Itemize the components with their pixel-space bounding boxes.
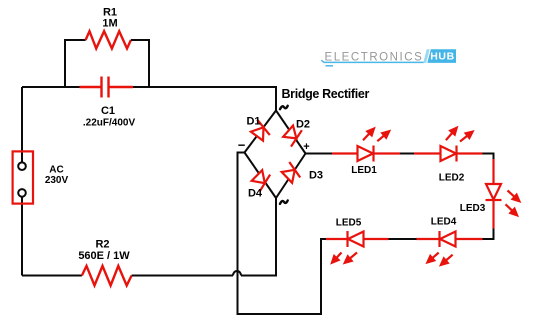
resistor R2 [82, 266, 132, 286]
wire: LED2 to corner [457, 152, 483, 154]
AC source body [13, 151, 33, 203]
wire: red to LED1 [332, 152, 358, 154]
wire: black segment bottom row [389, 238, 417, 240]
LED1 emission arrows [361, 127, 391, 144]
wire: red down to LED3 [492, 159, 494, 184]
diode D1 [251, 120, 270, 141]
logo underline [321, 60, 424, 66]
wire: bottom line R2 to hop [132, 275, 233, 277]
AC tilde bottom [280, 201, 288, 204]
wire: red to LED2 [414, 152, 441, 154]
svg-text:Bridge Rectifier: Bridge Rectifier [282, 87, 370, 101]
wire: R1 loop left vertical [65, 40, 86, 87]
capacitor C1 [80, 77, 134, 98]
wire: LED4 to black segment [417, 238, 440, 240]
svg-text:LED1: LED1 [351, 165, 377, 176]
wire: black segment [400, 153, 414, 155]
AC tilde top [280, 106, 288, 109]
wire: red to LED5 [364, 238, 389, 240]
wire hop over minus rail [233, 271, 241, 276]
LED5 [348, 231, 364, 247]
wire: bottom line hop to bridge bottom [241, 198, 276, 276]
svg-text:D2: D2 [296, 119, 310, 131]
svg-text:LED3: LED3 [460, 203, 486, 214]
wire: top main line left segment [22, 86, 80, 88]
svg-text:C1: C1 [101, 105, 115, 117]
diode D3 [282, 162, 301, 183]
wire: red to LED4 [456, 238, 483, 240]
LED4 [440, 231, 456, 247]
svg-text:D1: D1 [246, 116, 260, 128]
LED5 emission arrows [330, 250, 359, 265]
wire: black corner bottom right [483, 229, 494, 240]
AC source terminals [18, 162, 26, 170]
logo HUB box slash [423, 49, 430, 63]
svg-text:LED4: LED4 [431, 217, 457, 228]
diode D4 [252, 170, 270, 192]
wire: black corner top right [483, 154, 494, 160]
LED4 emission arrows [425, 250, 454, 267]
svg-text:230V: 230V [45, 175, 69, 186]
wire: left rail lower [21, 193, 23, 276]
svg-text:.22uF/400V: .22uF/400V [83, 118, 136, 129]
wire: black corner bottom left of LED row [320, 238, 326, 240]
svg-text:1M: 1M [102, 18, 117, 30]
svg-text:+: + [303, 141, 309, 153]
svg-text:−: − [238, 138, 246, 153]
LED2 [441, 146, 457, 162]
wire: bottom line left of R2 [22, 275, 82, 277]
bridge edge bottom-left [245, 153, 277, 199]
svg-text:R2: R2 [95, 239, 109, 251]
svg-text:560E / 1W: 560E / 1W [78, 250, 130, 262]
wire: LED1 to LED2 [374, 152, 401, 154]
wire: LED3 down red [492, 200, 494, 229]
LED3 [486, 184, 502, 200]
svg-text:LED5: LED5 [336, 218, 362, 229]
LED1 [358, 146, 374, 162]
svg-text:AC: AC [49, 165, 63, 176]
bridge edge top-right [276, 111, 306, 154]
wire: left rail upper [21, 87, 23, 166]
svg-text:D3: D3 [309, 170, 323, 182]
wire: R1 loop right vertical [131, 40, 149, 87]
bridge edge bottom-right [276, 154, 306, 199]
bridge edge top-left [245, 111, 277, 153]
wire: red LED5 to corner [326, 238, 348, 240]
diode D2 [283, 126, 302, 147]
LED3 emission arrows [503, 188, 521, 217]
svg-text:D4: D4 [248, 188, 263, 200]
svg-text:HUB: HUB [430, 51, 455, 63]
LED2 emission arrows [444, 126, 475, 144]
logo HUB box [427, 49, 456, 63]
wire: plus output black [306, 153, 333, 155]
resistor R1 [86, 31, 131, 48]
svg-text:ELECTRONICS: ELECTRONICS [325, 51, 424, 63]
svg-text:LED2: LED2 [439, 173, 465, 184]
wire: minus output down and around [238, 153, 322, 315]
wire: top main line right segment to bridge top [133, 87, 276, 111]
